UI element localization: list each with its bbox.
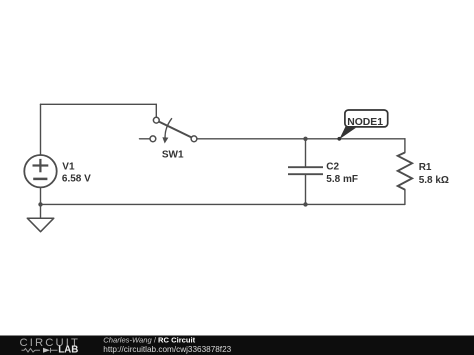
junction dot C2 top [303,137,307,141]
wire R1 top lead [404,139,406,153]
svg-text:SW1: SW1 [162,150,184,161]
wire mid rail (switch to R1 top) [197,138,405,140]
wire left rail upper (top rail to V1 top) [40,104,42,155]
svg-text:V1: V1 [62,161,75,172]
svg-text:LAB: LAB [58,345,78,355]
capacitor C2 [288,167,323,174]
wire C2 bottom lead [305,175,307,204]
svg-text:5.8 kΩ: 5.8 kΩ [419,175,449,186]
wire R1 bottom lead [404,190,406,205]
wire bottom rail [41,203,405,205]
svg-text:C2: C2 [326,162,339,173]
junction dot left [38,202,42,206]
ground [27,218,54,232]
switch SW1 [150,117,197,143]
svg-text:6.58 V: 6.58 V [62,174,91,185]
svg-text:R1: R1 [419,162,432,173]
svg-text:5.8 mF: 5.8 mF [326,174,358,185]
resistor R1 [398,153,412,190]
svg-text:NODE1: NODE1 [347,117,383,128]
logo diode triangle [43,348,50,353]
footer bar [0,336,474,355]
svg-text:Charles-Wang / RC Circuit: Charles-Wang / RC Circuit [103,335,195,344]
logo waveform [22,348,58,353]
wire bottom rail to ground [40,204,42,218]
wire switch NC stub [140,138,151,140]
voltage source V1 [24,155,56,187]
wire switch pole drop [155,104,157,117]
svg-text:http://circuitlab.com/cwj33638: http://circuitlab.com/cwj3363878f23 [103,345,231,354]
junction dot C2 bottom [303,202,307,206]
wire C2 top lead [305,139,307,167]
wire top rail [41,103,157,105]
node NODE1 flag [337,110,387,141]
wire V1 bottom to bottom rail [40,187,42,204]
